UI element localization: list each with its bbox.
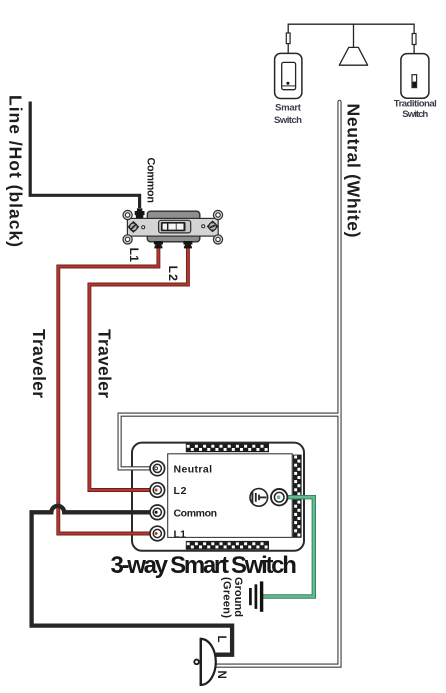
- terminal L2: [150, 483, 165, 498]
- smart switch body: [132, 443, 304, 551]
- svg-text:Switch: Switch: [402, 109, 428, 120]
- line/hot black wire: [30, 102, 139, 209]
- svg-text:Neutral: Neutral: [174, 463, 213, 475]
- ground symbol in box: [250, 489, 268, 507]
- switch mounting strap: [127, 218, 218, 236]
- neutral white wire: [120, 102, 340, 666]
- L2 terminal (switch): [183, 241, 192, 248]
- ground terminal: [271, 489, 287, 505]
- svg-text:Switch: Switch: [274, 115, 302, 126]
- toggle base: [159, 220, 191, 233]
- lamp holder line: [200, 638, 202, 686]
- svg-text:L2: L2: [166, 266, 180, 282]
- strap screw right: [207, 221, 217, 232]
- wire legend bus: [288, 24, 414, 33]
- lamp holder nub: [194, 660, 199, 665]
- heatsink teeth right: [293, 455, 302, 538]
- svg-text:3-way Smart Switch: 3-way Smart Switch: [111, 552, 297, 579]
- smart switch inner panel: [168, 454, 293, 538]
- L1 red stub: [120, 532, 157, 536]
- svg-text:L: L: [215, 636, 227, 643]
- L1 terminal (switch): [154, 241, 163, 248]
- lamp shade symbol: [339, 47, 367, 65]
- L2 red stub: [120, 488, 157, 492]
- svg-text:Traveler: Traveler: [94, 329, 114, 398]
- traditional switch drop wire: [413, 45, 415, 54]
- terminal Common: [150, 505, 165, 520]
- svg-text:Ground: Ground: [232, 577, 244, 617]
- svg-text:L1: L1: [174, 529, 187, 541]
- strap screw left: [128, 222, 138, 233]
- svg-text:L1: L1: [127, 248, 141, 263]
- svg-text:Common: Common: [174, 507, 218, 519]
- green ground wire: [263, 497, 314, 596]
- strap small holes: [142, 226, 145, 229]
- lamp drop wire: [353, 24, 355, 47]
- traditional switch fuse link: [412, 34, 416, 45]
- heatsink teeth bottom: [186, 541, 269, 550]
- traditional switch icon: [401, 54, 429, 99]
- toggle handle: [161, 222, 186, 231]
- svg-text:(Green): (Green): [221, 577, 233, 618]
- svg-text:Line /Hot (black): Line /Hot (black): [6, 95, 26, 247]
- lamp bulb arc: [201, 639, 216, 685]
- terminal L1: [150, 526, 165, 541]
- svg-text:Common: Common: [144, 158, 156, 204]
- common black wire to box: [32, 506, 233, 655]
- svg-text:N: N: [215, 671, 227, 679]
- strap mounting lobes: [123, 210, 223, 244]
- heatsink teeth top: [186, 443, 269, 452]
- earth ground symbol: [250, 581, 261, 611]
- smart switch icon: [275, 53, 302, 98]
- svg-text:Neutral (White): Neutral (White): [344, 104, 364, 238]
- traveler wire from L1: [58, 246, 158, 534]
- svg-text:Smart: Smart: [275, 102, 302, 113]
- 3-way toggle switch body: [147, 211, 200, 242]
- smart switch fuse link: [286, 33, 290, 44]
- terminal Neutral: [150, 461, 165, 476]
- svg-text:L2: L2: [174, 485, 187, 497]
- common terminal (top): [135, 208, 145, 218]
- smart switch drop wire: [287, 44, 289, 54]
- svg-text:Traveler: Traveler: [29, 329, 49, 398]
- traveler wire from L2: [89, 246, 187, 490]
